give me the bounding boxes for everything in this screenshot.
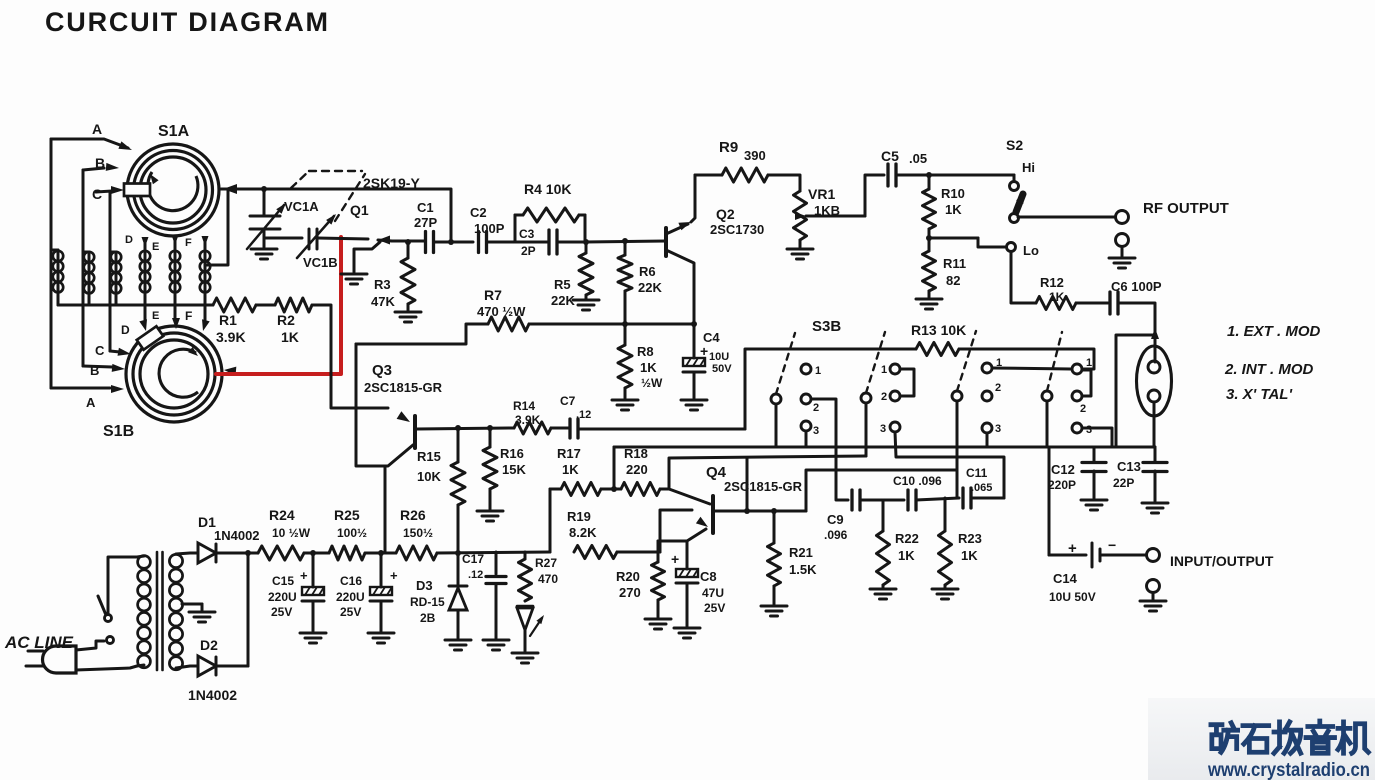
- resistor R27 470 with indicator diode: [524, 552, 527, 559]
- wire vertical B: [82, 170, 85, 366]
- wire VC1A node to top right: [264, 189, 451, 240]
- wire S1A wiper output: [223, 184, 237, 194]
- wire C5 to Hi contact: [1013, 175, 1016, 181]
- resistor R20 270: [657, 541, 660, 562]
- crystal connector socket: [1137, 346, 1172, 416]
- svg-text:.12: .12: [468, 569, 483, 581]
- wire R1-R2: [256, 304, 275, 307]
- wire R26 to rail: [437, 552, 550, 553]
- svg-text:R26: R26: [400, 507, 426, 523]
- capacitor C12 220P: [1093, 447, 1096, 462]
- resistor R3 47K: [407, 242, 410, 258]
- svg-text:D2: D2: [200, 637, 218, 653]
- capacitor C16 220U 25V: [380, 553, 383, 587]
- capacitor C6 100P: [1108, 292, 1111, 314]
- svg-text:C7: C7: [560, 394, 576, 408]
- wire R18 to Q4 base: [660, 488, 669, 491]
- S3B-1 contact 3: [801, 421, 811, 431]
- wire B to S1B: [83, 366, 112, 367]
- resistor R7 470 halfW: [356, 324, 488, 344]
- wire vertical A: [50, 139, 53, 388]
- ground Q1 gate: [341, 273, 367, 276]
- svg-text:Q2: Q2: [716, 206, 735, 222]
- svg-text:C6 100P: C6 100P: [1111, 279, 1162, 294]
- svg-text:R15: R15: [417, 449, 441, 464]
- svg-text:1K: 1K: [945, 202, 962, 217]
- svg-text:C11: C11: [966, 466, 988, 480]
- wire secondary top to D1: [176, 553, 198, 554]
- svg-text:C2: C2: [470, 205, 487, 220]
- svg-text:VC1B: VC1B: [303, 255, 338, 270]
- resistor R11 82: [923, 251, 936, 291]
- svg-text:R20: R20: [616, 569, 640, 584]
- svg-text:½W: ½W: [641, 376, 663, 390]
- ground C4: [681, 399, 707, 402]
- wiper arrow S1B: [224, 367, 236, 376]
- wire vertical C: [109, 192, 112, 351]
- svg-text:R22: R22: [895, 531, 919, 546]
- svg-text:1N4002: 1N4002: [214, 528, 260, 543]
- svg-text:D: D: [125, 234, 133, 246]
- svg-text:E: E: [152, 310, 159, 322]
- svg-text:R2: R2: [277, 312, 295, 328]
- svg-text:1N4002: 1N4002: [188, 687, 237, 703]
- svg-text:2SK19-Y: 2SK19-Y: [363, 175, 420, 191]
- svg-text:RF OUTPUT: RF OUTPUT: [1143, 200, 1229, 217]
- S3B-2 contact 3: [890, 422, 900, 432]
- svg-text:D: D: [121, 323, 130, 337]
- ground C12: [1081, 499, 1107, 502]
- svg-text:10K: 10K: [417, 469, 441, 484]
- svg-text:10 ½W: 10 ½W: [272, 526, 311, 540]
- wire switch to transformer: [108, 557, 137, 614]
- watermark chinese logo: [1211, 721, 1368, 753]
- capacitor C5 .05: [886, 164, 889, 186]
- resistor R26 150: [396, 546, 437, 560]
- highlight red wire S1B to Q1: [216, 237, 341, 374]
- wire C1-C2: [451, 241, 473, 244]
- svg-text:47U: 47U: [702, 586, 724, 600]
- ground R3: [407, 304, 410, 310]
- ground RF terminal: [1109, 257, 1135, 260]
- svg-text:2. INT . MOD: 2. INT . MOD: [1224, 361, 1314, 378]
- wire contact3 right to C6 branch: [1083, 428, 1112, 447]
- wire contact2 to C9: [812, 399, 848, 500]
- svg-text:+: +: [671, 551, 679, 567]
- svg-text:C1: C1: [417, 200, 434, 215]
- svg-text:8.2K: 8.2K: [569, 525, 597, 540]
- S3B-4 contact 2: [1072, 391, 1082, 401]
- svg-text:R17: R17: [557, 446, 581, 461]
- wire R9 to VR1: [768, 175, 800, 191]
- svg-text:E: E: [152, 241, 159, 253]
- svg-text:A: A: [86, 395, 96, 410]
- S3B-4 contact 1: [1072, 364, 1082, 374]
- capacitor C1 27P: [424, 232, 427, 253]
- svg-text:R11: R11: [943, 256, 966, 271]
- S3B-2 contact 2: [890, 391, 900, 401]
- transistor Q2 2SC1730: [664, 228, 668, 256]
- svg-text:RD-15: RD-15: [410, 595, 445, 609]
- ground R11: [916, 298, 942, 301]
- svg-text:C14: C14: [1053, 571, 1078, 586]
- coil L4: [144, 240, 147, 320]
- wire bracket S3B-4: [1082, 370, 1091, 396]
- wire C10-C11: [916, 498, 959, 500]
- svg-text:C8: C8: [700, 569, 717, 584]
- wire Lo to R12: [1011, 252, 1036, 303]
- svg-text:2: 2: [881, 391, 887, 403]
- svg-text:2: 2: [813, 402, 819, 414]
- ground C8: [674, 627, 700, 630]
- svg-text:.096: .096: [824, 528, 848, 542]
- transformer T1 primary: [138, 556, 151, 569]
- svg-text:R4 10K: R4 10K: [524, 181, 571, 197]
- svg-text:10U 50V: 10U 50V: [1049, 590, 1096, 604]
- ground C17: [483, 639, 509, 642]
- wire B to S1A: [83, 168, 104, 170]
- svg-text:AC LINE: AC LINE: [4, 633, 74, 652]
- wire R18 riser: [669, 456, 866, 489]
- S3B-3 contact 1: [982, 363, 992, 373]
- svg-text:A: A: [92, 121, 102, 137]
- svg-text:3.9K: 3.9K: [515, 413, 541, 427]
- ground C15: [300, 632, 326, 635]
- svg-text:R27: R27: [535, 556, 557, 570]
- S3B pole 1: [771, 394, 781, 404]
- capacitor C11 .065: [961, 488, 964, 508]
- svg-text:1.5K: 1.5K: [789, 562, 817, 577]
- wire R10 to Lo: [929, 237, 978, 240]
- svg-text:+: +: [390, 568, 398, 583]
- svg-text:.05: .05: [909, 151, 927, 166]
- wire Q2 collector up: [691, 175, 695, 222]
- svg-text:C3: C3: [519, 227, 535, 241]
- svg-text:47K: 47K: [371, 294, 395, 309]
- wire plug bottom to transformer: [76, 666, 137, 670]
- svg-text:C13: C13: [1117, 459, 1141, 474]
- svg-text:C15: C15: [272, 574, 294, 588]
- svg-text:R6: R6: [639, 264, 656, 279]
- coil L2: [88, 252, 91, 305]
- capacitor C8 47U 25V: [676, 569, 698, 577]
- zener diode D3 RD-15: [457, 553, 460, 584]
- resistor R15 10K: [457, 428, 460, 462]
- svg-text:−: −: [1108, 537, 1116, 553]
- ground R5: [585, 295, 588, 299]
- svg-text:1. EXT . MOD: 1. EXT . MOD: [1227, 323, 1321, 340]
- svg-text:100P: 100P: [474, 221, 505, 236]
- svg-text:2P: 2P: [521, 244, 536, 258]
- ground R27 diode: [512, 652, 538, 655]
- svg-text:1KB: 1KB: [814, 203, 840, 218]
- ground D3: [445, 639, 471, 642]
- transformer T1 secondary: [169, 554, 182, 567]
- resistor R18 220: [621, 483, 660, 496]
- variable capacitor VC1B: [308, 229, 311, 249]
- resistor R16 15K: [489, 428, 492, 447]
- S3B pole 2: [861, 393, 871, 403]
- resistor R19 8.2K: [574, 546, 617, 559]
- ground VC1A: [251, 248, 277, 251]
- svg-text:25V: 25V: [340, 605, 361, 619]
- wire A to S1B: [51, 387, 110, 390]
- svg-text:3: 3: [880, 423, 886, 435]
- svg-text:3.9K: 3.9K: [216, 329, 246, 345]
- svg-text:D3: D3: [416, 578, 433, 593]
- svg-text:VC1A: VC1A: [284, 199, 319, 214]
- svg-text:C10 .096: C10 .096: [893, 474, 942, 488]
- svg-text:1: 1: [881, 364, 887, 376]
- svg-text:1K: 1K: [281, 329, 299, 345]
- svg-text:270: 270: [619, 585, 641, 600]
- resistor R10 1K: [928, 175, 931, 189]
- ground R21: [761, 605, 787, 608]
- svg-text:C: C: [92, 186, 102, 202]
- svg-text:C12: C12: [1051, 462, 1075, 477]
- svg-text:27P: 27P: [414, 215, 437, 230]
- svg-text:R23: R23: [958, 531, 982, 546]
- svg-text:R13 10K: R13 10K: [911, 322, 966, 338]
- svg-text:390: 390: [744, 148, 766, 163]
- svg-text:25V: 25V: [704, 601, 725, 615]
- wire S1A node to VC1A: [263, 189, 266, 216]
- svg-text:3. X' TAL': 3. X' TAL': [1226, 386, 1292, 403]
- svg-text:25V: 25V: [271, 605, 292, 619]
- capacitor C7 .12: [568, 419, 571, 438]
- resistor R5 22K: [585, 242, 588, 253]
- svg-text:2SC1730: 2SC1730: [710, 222, 764, 237]
- wire R13 to S3B-4 contact1: [959, 349, 1094, 369]
- resistor R25 100: [329, 546, 365, 560]
- svg-text:50V: 50V: [712, 363, 732, 375]
- svg-text:1: 1: [815, 365, 821, 377]
- diode D1 1N4002: [198, 543, 216, 563]
- svg-text:82: 82: [946, 273, 960, 288]
- capacitor C9 .096: [850, 490, 853, 510]
- svg-text:S3B: S3B: [812, 318, 841, 335]
- S3B pole 3: [952, 391, 962, 401]
- resistor R13 10K: [916, 343, 959, 356]
- wire C3 to Q2 base: [585, 241, 666, 242]
- svg-text:S1A: S1A: [158, 123, 190, 140]
- svg-text:R8: R8: [637, 344, 654, 359]
- svg-text:2SC1815-GR: 2SC1815-GR: [724, 479, 803, 494]
- coil L6: [204, 240, 207, 320]
- terminal INPUT/OUTPUT: [1147, 549, 1160, 562]
- coil L5: [174, 238, 177, 320]
- S3B pole 4: [1042, 391, 1052, 401]
- svg-text:R10: R10: [941, 186, 965, 201]
- transistor Q3 2SC1815-GR: [413, 416, 417, 448]
- svg-text:3: 3: [995, 423, 1001, 435]
- S3B-3 contact 2: [982, 391, 992, 401]
- ground VR1: [787, 248, 813, 251]
- wire R19 to Q4 base riser: [617, 551, 660, 554]
- ground R16: [477, 510, 503, 513]
- wire secondary center tap: [182, 603, 202, 606]
- svg-text:C17: C17: [462, 552, 484, 566]
- svg-text:F: F: [185, 309, 192, 323]
- svg-text:Hi: Hi: [1022, 160, 1035, 175]
- svg-text:S2: S2: [1006, 137, 1023, 153]
- wire S2 common to RF OUTPUT: [1018, 216, 1115, 219]
- variable capacitor VC1A: [250, 215, 280, 218]
- AC plug: [43, 646, 77, 673]
- svg-text:S1B: S1B: [103, 423, 134, 440]
- svg-text:2: 2: [1080, 403, 1086, 415]
- wire coil L6 to wiper line: [205, 189, 228, 265]
- svg-text:3: 3: [1086, 424, 1092, 436]
- svg-text:22P: 22P: [1113, 476, 1134, 490]
- svg-text:C16: C16: [340, 574, 362, 588]
- wire R7 left to Q3 collector: [356, 344, 413, 466]
- svg-text:100½: 100½: [337, 526, 367, 540]
- svg-text:R12: R12: [1040, 275, 1064, 290]
- svg-text:R9: R9: [719, 139, 738, 156]
- svg-text:1K: 1K: [1049, 290, 1065, 304]
- svg-text:R19: R19: [567, 509, 591, 524]
- svg-text:220P: 220P: [1048, 478, 1076, 492]
- svg-text:Q1: Q1: [350, 202, 369, 218]
- wire R17-R18 junction: [601, 488, 621, 491]
- svg-text:10U: 10U: [709, 351, 729, 363]
- resistor R21 1.5K: [773, 511, 776, 543]
- svg-text:22K: 22K: [638, 280, 662, 295]
- wire R25-R26: [365, 552, 396, 555]
- resistor R4 10K: [515, 214, 523, 217]
- ground R23: [932, 588, 958, 591]
- capacitor C17 .12: [495, 552, 498, 574]
- transformer core: [156, 552, 159, 670]
- svg-text:+: +: [700, 343, 708, 359]
- capacitor C14 10U 50V: [1049, 554, 1086, 557]
- svg-text:Q3: Q3: [372, 362, 392, 379]
- resistor R6 22K: [624, 241, 627, 255]
- transistor Q1 2SK19-Y: [378, 236, 390, 245]
- wire supply riser to Q3 collector: [384, 466, 387, 553]
- resistor R24 10 halfW: [248, 552, 258, 555]
- svg-text:1K: 1K: [898, 548, 915, 563]
- capacitor C3 2P: [547, 230, 550, 254]
- resistor R9 390: [695, 174, 722, 177]
- wire collector riser right: [806, 470, 957, 511]
- svg-text:470: 470: [538, 572, 558, 586]
- ground R22: [870, 588, 896, 591]
- transistor Q4 2SC1815-GR: [711, 496, 715, 533]
- wire VR1 wiper riser: [865, 175, 884, 216]
- svg-text:R21: R21: [789, 545, 813, 560]
- terminal RF OUTPUT: [1116, 211, 1129, 224]
- wire C to S1B: [110, 351, 120, 352]
- svg-text:1K: 1K: [640, 360, 657, 375]
- resistor R14 3.9K: [514, 422, 551, 434]
- svg-text:VR1: VR1: [808, 186, 835, 202]
- wire bracket S3B-2: [900, 369, 914, 396]
- S3B-1 contact 2: [801, 394, 811, 404]
- wire A to S1A: [51, 139, 128, 148]
- wire contact3 to cap line: [895, 432, 1004, 498]
- coil L1: [57, 250, 60, 305]
- rotary switch S1A: [127, 144, 219, 236]
- svg-text:R1: R1: [219, 312, 237, 328]
- svg-text:470 ½W: 470 ½W: [477, 304, 526, 319]
- capacitor C13 22P: [1154, 447, 1157, 462]
- ground R20: [645, 618, 671, 621]
- svg-text:.065: .065: [971, 482, 992, 494]
- diode D2 1N4002: [198, 656, 216, 676]
- svg-text:2: 2: [995, 382, 1001, 394]
- svg-text:C9: C9: [827, 512, 844, 527]
- wire R24-R25: [304, 552, 329, 555]
- svg-text:R5: R5: [554, 277, 571, 292]
- wire C9-C10: [860, 499, 904, 502]
- svg-text:F: F: [185, 237, 192, 249]
- resistor R1: [213, 298, 256, 312]
- wire main to VC1B: [264, 237, 302, 240]
- ground input terminal: [1140, 600, 1166, 603]
- svg-text:15K: 15K: [502, 462, 526, 477]
- dashed gate outline 2SK19-Y: [291, 171, 309, 188]
- potentiometer VR1 1KB: [794, 191, 807, 240]
- coil L3: [115, 252, 118, 305]
- wire C11 right: [971, 497, 1004, 500]
- svg-text:R3: R3: [374, 277, 391, 292]
- capacitor C10 .096: [906, 490, 909, 510]
- svg-text:.12: .12: [576, 409, 591, 421]
- S3B-3 contact 3: [982, 423, 992, 433]
- wire C6 to connector: [1118, 303, 1155, 335]
- wire rail to C14 branch: [1048, 447, 1051, 555]
- wire R12 to C6: [1076, 302, 1108, 305]
- ground center tap: [189, 611, 215, 614]
- capacitor C4 electrolytic: [693, 324, 696, 358]
- ground C13: [1142, 502, 1168, 505]
- svg-text:www.crystalradio.cn: www.crystalradio.cn: [1207, 760, 1370, 780]
- wire R2 to Q3 emitter: [312, 305, 388, 408]
- svg-text:+: +: [300, 568, 308, 583]
- wire riser 747: [746, 458, 749, 511]
- wire bottom rail A: [614, 446, 1155, 449]
- S3B-4 contact 3: [1072, 423, 1082, 433]
- capacitor C2 100P: [477, 232, 480, 253]
- wire rectifier join: [216, 552, 248, 555]
- svg-text:3: 3: [813, 425, 819, 437]
- svg-text:2SC1815-GR: 2SC1815-GR: [364, 380, 443, 395]
- rotary switch S1B: [126, 326, 222, 422]
- svg-text:1K: 1K: [562, 462, 579, 477]
- svg-text:R14: R14: [513, 399, 535, 413]
- svg-text:R7: R7: [484, 287, 502, 303]
- wire C to S1A: [96, 191, 112, 192]
- resistor R17 1K: [550, 488, 561, 491]
- svg-text:C5: C5: [881, 148, 899, 164]
- watermark background: [1148, 698, 1375, 780]
- ground R8: [612, 399, 638, 402]
- S3B-1 contact 1: [801, 364, 811, 374]
- svg-text:220U: 220U: [268, 590, 297, 604]
- wire plug to switch: [76, 641, 104, 650]
- resistor R22 1K: [882, 500, 885, 531]
- wire Q3 to R14 line: [417, 428, 514, 429]
- svg-text:R16: R16: [500, 446, 524, 461]
- capacitor C15 220U 25V: [312, 553, 315, 587]
- svg-text:2B: 2B: [420, 611, 436, 625]
- svg-text:Lo: Lo: [1023, 243, 1039, 258]
- resistor R12 1K: [1036, 297, 1076, 310]
- svg-text:220: 220: [626, 462, 648, 477]
- parallel box R4/C3: [514, 215, 517, 242]
